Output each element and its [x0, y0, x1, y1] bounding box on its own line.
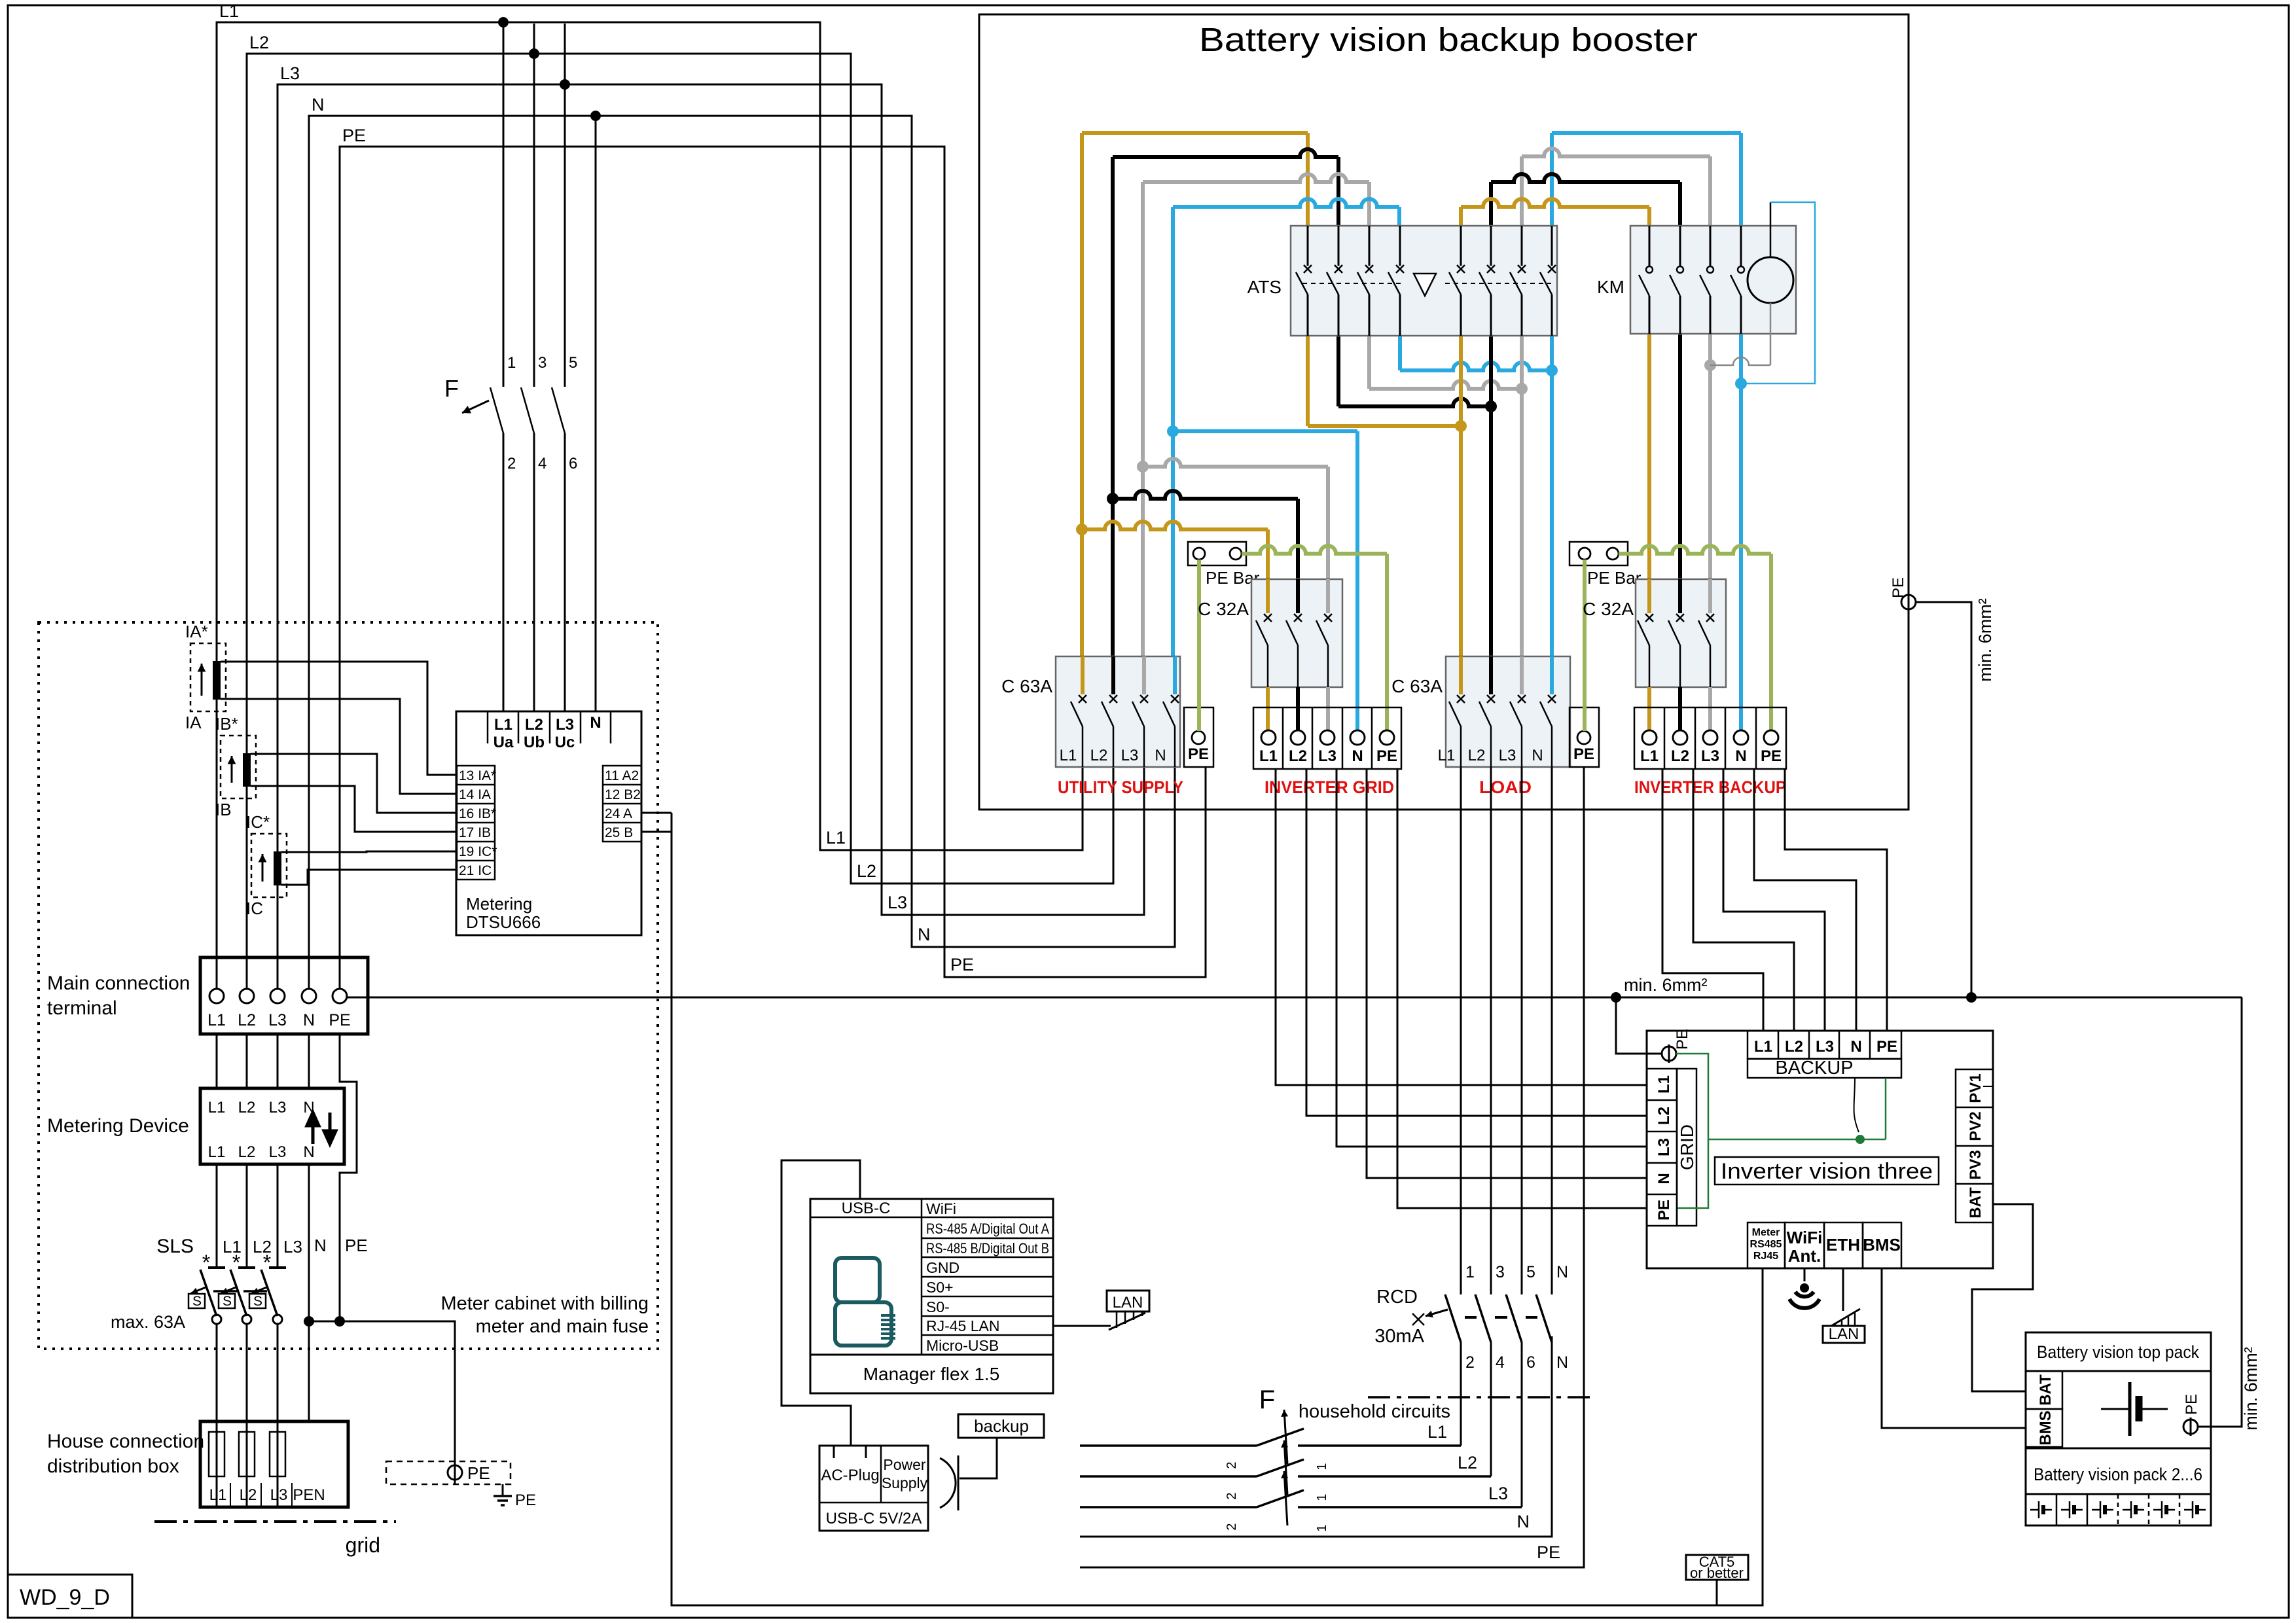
- svg-text:household circuits: household circuits: [1299, 1401, 1450, 1422]
- svg-text:PE: PE: [950, 955, 974, 974]
- svg-text:L1: L1: [208, 1143, 226, 1161]
- svg-text:L1: L1: [494, 716, 512, 734]
- svg-text:L3: L3: [1499, 747, 1516, 764]
- fuse house L1: [216, 1421, 218, 1507]
- wire gold ATS to KM: [1459, 207, 1463, 226]
- S release box SLS L3: [249, 1294, 266, 1308]
- wire inverter backup feed: [1662, 769, 1763, 1031]
- svg-text:3: 3: [538, 354, 547, 372]
- svg-text:21 IC: 21 IC: [459, 863, 492, 878]
- svg-text:L1: L1: [1060, 747, 1077, 764]
- svg-text:L3: L3: [269, 1099, 287, 1116]
- svg-text:PE: PE: [329, 1011, 350, 1029]
- svg-text:L1: L1: [1655, 1075, 1673, 1094]
- manager device icon: [835, 1258, 880, 1302]
- wire PE bypass around metering device: [340, 1034, 357, 1321]
- inverter GRID terminal cells: [1647, 1069, 1677, 1226]
- node N meter tap: [590, 111, 601, 121]
- wire inverter grid feed: [1276, 769, 1647, 1085]
- svg-text:L3: L3: [1121, 747, 1139, 764]
- svg-text:*: *: [263, 1251, 271, 1274]
- node gold tap to inverter grid: [1076, 524, 1088, 535]
- svg-text:Power: Power: [883, 1456, 926, 1473]
- svg-text:PE: PE: [2183, 1394, 2200, 1415]
- svg-text:Manager flex 1.5: Manager flex 1.5: [863, 1364, 1000, 1384]
- svg-text:N: N: [1735, 747, 1746, 765]
- svg-text:PE: PE: [342, 126, 366, 145]
- svg-text:1: 1: [1315, 1463, 1329, 1470]
- KM pole: [1679, 226, 1681, 266]
- svg-text:Supply: Supply: [882, 1474, 928, 1491]
- svg-text:L2: L2: [857, 861, 876, 881]
- battery pack cell 3: [2117, 1494, 2119, 1525]
- metering device box: [200, 1088, 344, 1164]
- svg-text:DTSU666: DTSU666: [466, 912, 541, 932]
- ATS interlock triangle: [1414, 274, 1436, 296]
- node gray ATS output: [1516, 383, 1528, 395]
- wire L3 terminal to metering device: [277, 1034, 279, 1088]
- current transformer IA: [190, 643, 226, 711]
- svg-text:N: N: [1655, 1173, 1673, 1184]
- svg-text:L2: L2: [1458, 1453, 1477, 1472]
- switch SLS L2: [246, 1164, 248, 1268]
- svg-text:Battery vision pack 2...6: Battery vision pack 2...6: [2034, 1465, 2202, 1484]
- svg-text:IA*: IA*: [185, 622, 208, 641]
- svg-text:L1: L1: [1259, 747, 1278, 765]
- inverter BACKUP terminal strip: [1748, 1031, 1901, 1059]
- svg-text:UTILITY SUPPLY: UTILITY SUPPLY: [1058, 777, 1183, 797]
- svg-text:1: 1: [1315, 1524, 1329, 1531]
- svg-text:C 32A: C 32A: [1198, 599, 1249, 619]
- PE symbol booster right: [1901, 595, 1916, 609]
- wire load output to RCD: [1551, 767, 1553, 1294]
- svg-text:PV3: PV3: [1967, 1150, 1984, 1179]
- ATS pole: [1460, 226, 1462, 266]
- svg-text:PV1: PV1: [1967, 1073, 1984, 1103]
- wire backup to power supply: [960, 1438, 997, 1478]
- breaker C32A inverter grid: [1251, 579, 1342, 687]
- ATS pole: [1490, 226, 1492, 266]
- svg-text:L2: L2: [1090, 747, 1108, 764]
- power supply AC-Plug box: [819, 1446, 928, 1531]
- controller Manager flex 1.5: [810, 1199, 1053, 1393]
- svg-text:L2: L2: [525, 716, 543, 734]
- inverter PE symbol: [1662, 1046, 1676, 1061]
- CAT5 or better box: [1686, 1555, 1748, 1580]
- wire inverter grid feed: [1306, 769, 1647, 1116]
- svg-text:LAN: LAN: [1113, 1294, 1143, 1311]
- wire colored stubs C32A to grid terminals: [1266, 687, 1270, 731]
- svg-text:N: N: [1850, 1038, 1861, 1056]
- svg-text:L3: L3: [1655, 1138, 1673, 1156]
- node L3 fuse tap: [560, 79, 570, 90]
- svg-text:AC-Plug: AC-Plug: [821, 1467, 879, 1484]
- inverter bottom port cells: [1748, 1222, 1785, 1268]
- wire PE line to inverter PE: [1616, 997, 1662, 1054]
- svg-text:Meter: Meter: [1752, 1227, 1780, 1238]
- wire olive PE bar to utility PE: [1197, 560, 1201, 731]
- current transformer IB: [221, 736, 256, 798]
- svg-text:2: 2: [1465, 1353, 1475, 1372]
- KM pole: [1710, 226, 1712, 266]
- svg-text:N: N: [303, 1143, 314, 1161]
- wire manager USB-C to power supply: [781, 1160, 860, 1446]
- wire PE main equipotential line min.6mm2: [347, 997, 2242, 999]
- wire inverter backup feed: [1723, 769, 1825, 1031]
- wire household N: [1080, 1336, 1552, 1537]
- node N PEN bond: [304, 1316, 314, 1327]
- PE bar right: [1570, 542, 1628, 565]
- svg-text:BMS: BMS: [2037, 1410, 2054, 1445]
- S release box SLS L2: [219, 1294, 235, 1308]
- svg-text:N: N: [590, 714, 601, 732]
- svg-text:N: N: [1517, 1512, 1530, 1531]
- USB-C connector symbol: [940, 1458, 956, 1508]
- svg-text:2: 2: [507, 455, 516, 473]
- wire olive PE bar to load PE: [1583, 560, 1587, 731]
- RCD test cross and trip arrow: [1426, 1310, 1448, 1316]
- svg-text:meter and main fuse: meter and main fuse: [476, 1316, 649, 1337]
- PE bar left: [1188, 542, 1246, 565]
- svg-text:L1: L1: [1438, 747, 1456, 764]
- svg-text:C 32A: C 32A: [1583, 599, 1634, 619]
- KM pole: [1649, 226, 1651, 266]
- svg-text:1: 1: [1465, 1263, 1475, 1281]
- ATS pole: [1369, 226, 1371, 266]
- svg-text:L3: L3: [888, 893, 907, 912]
- terminal block inverter backup: [1634, 707, 1786, 769]
- svg-text:S: S: [253, 1294, 262, 1309]
- wire PEN earthing link: [309, 1321, 455, 1465]
- svg-text:RS485: RS485: [1750, 1239, 1782, 1250]
- switch household L1: [1080, 1444, 1257, 1447]
- wire CT IA secondary S2: [221, 699, 457, 794]
- house connection distribution box: [200, 1421, 348, 1507]
- wire L1 gold utility riser: [1080, 133, 1084, 656]
- wire load PE to household PE: [1080, 767, 1584, 1567]
- wire L2 black utility riser: [1111, 157, 1115, 656]
- svg-text:L2: L2: [238, 1099, 256, 1116]
- svg-text:PE: PE: [1573, 745, 1594, 763]
- svg-text:2: 2: [1225, 1461, 1239, 1469]
- svg-text:N: N: [918, 925, 931, 944]
- svg-text:IC*: IC*: [246, 812, 270, 832]
- node blue KM coil feed: [1735, 378, 1747, 389]
- wire L2 black top run to ATS: [1113, 149, 1338, 157]
- svg-text:L1: L1: [1640, 747, 1659, 765]
- label Inverter vision three: [1715, 1157, 1939, 1185]
- wire gold KM output to backup C32A: [1647, 334, 1651, 579]
- switch SLS L1: [216, 1164, 218, 1268]
- wifi antenna symbol: [1804, 1268, 1806, 1281]
- ATS pole: [1338, 226, 1340, 266]
- breaker C32A inverter backup: [1636, 579, 1726, 687]
- svg-text:6: 6: [569, 455, 577, 473]
- wire N to metering: [595, 117, 597, 711]
- wire L3 gray top run to ATS: [1143, 174, 1369, 182]
- svg-text:L2: L2: [1785, 1038, 1803, 1056]
- svg-text:SLS: SLS: [156, 1236, 194, 1257]
- svg-text:PE: PE: [1674, 1029, 1691, 1050]
- svg-text:RJ45: RJ45: [1753, 1251, 1778, 1262]
- wire L1 terminal to metering device: [216, 1034, 218, 1088]
- svg-text:Meter cabinet with billing: Meter cabinet with billing: [440, 1293, 649, 1314]
- svg-text:N: N: [312, 95, 325, 115]
- svg-text:2: 2: [1225, 1523, 1239, 1530]
- svg-text:L1: L1: [208, 1099, 226, 1116]
- svg-text:L2: L2: [238, 1011, 256, 1029]
- svg-text:L3: L3: [1701, 747, 1719, 765]
- wire blue ATS to KM: [1550, 133, 1554, 226]
- wire black ATS output to LOAD breaker: [1489, 336, 1493, 656]
- svg-text:*: *: [232, 1251, 240, 1274]
- wire CT IA secondary S1: [221, 662, 457, 775]
- svg-text:max. 63A: max. 63A: [111, 1312, 185, 1332]
- wire BMS inverter to battery: [1882, 1268, 2026, 1428]
- svg-text:USB-C: USB-C: [842, 1200, 891, 1217]
- wire gray branch to grid C32A: [1143, 459, 1328, 467]
- wire gray ATS outputs merge: [1367, 336, 1371, 389]
- node black tap to inverter grid: [1107, 493, 1119, 505]
- battery PE symbol: [2183, 1419, 2198, 1434]
- node L2 fuse tap: [529, 48, 539, 59]
- wire L3 gray utility riser: [1141, 182, 1145, 656]
- current transformer IC: [251, 834, 287, 897]
- wire BAT inverter to battery: [1972, 1204, 2033, 1391]
- svg-text:WD_9_D: WD_9_D: [20, 1585, 110, 1610]
- svg-text:min. 6mm²: min. 6mm²: [2241, 1347, 2261, 1431]
- ATS pole: [1521, 226, 1523, 266]
- terminal PE load: [1570, 707, 1599, 767]
- svg-text:N: N: [303, 1011, 315, 1029]
- wire gold branch to grid C32A: [1082, 522, 1268, 529]
- terminal column DTSU right pins 11-25: [603, 766, 641, 842]
- wire blue KM output to backup N terminal: [1739, 334, 1743, 731]
- battery pack cell 1: [2056, 1494, 2058, 1525]
- svg-text:N: N: [1155, 747, 1166, 764]
- svg-text:Micro-USB: Micro-USB: [926, 1337, 999, 1354]
- wire CT IB secondary S2: [251, 786, 457, 832]
- wire L1 grid bus (house feed to booster utility input): [217, 22, 1083, 989]
- RCD pole 5: [1506, 1294, 1522, 1342]
- wire olive PE bar to backup PE: [1619, 546, 1771, 554]
- wire blue ATS output to LOAD breaker: [1550, 336, 1554, 656]
- S release box SLS L1: [188, 1294, 205, 1308]
- wire green PE bond network: [1676, 1054, 1708, 1208]
- svg-text:terminal: terminal: [47, 997, 117, 1019]
- wire KM coil feed blue: [1770, 202, 1772, 257]
- svg-text:14 IA: 14 IA: [459, 787, 491, 802]
- svg-text:PE: PE: [1537, 1543, 1560, 1562]
- svg-text:House connection: House connection: [47, 1431, 204, 1452]
- wire load output to RCD: [1490, 767, 1492, 1294]
- svg-text:PEN: PEN: [293, 1486, 325, 1504]
- battery BMS terminal: [2026, 1409, 2062, 1447]
- svg-text:N: N: [1556, 1263, 1568, 1281]
- ATS pole: [1399, 226, 1401, 266]
- fuse house L2: [246, 1421, 248, 1507]
- wire gray ATS output to LOAD breaker: [1520, 336, 1524, 656]
- svg-text:min. 6mm²: min. 6mm²: [1975, 598, 1995, 682]
- svg-text:L3: L3: [270, 1486, 288, 1504]
- svg-text:ATS: ATS: [1247, 277, 1282, 297]
- ATS pole: [1307, 226, 1309, 266]
- svg-text:N: N: [314, 1236, 327, 1255]
- svg-text:3: 3: [1496, 1263, 1505, 1281]
- title block WD_9_D: [8, 1575, 132, 1618]
- svg-text:PE: PE: [1890, 577, 1907, 598]
- svg-text:4: 4: [538, 455, 547, 473]
- contactor KM: [1630, 226, 1796, 334]
- fuse-switch F 3-pole: [503, 24, 505, 387]
- svg-text:L2: L2: [1468, 747, 1486, 764]
- svg-text:L1: L1: [826, 828, 846, 847]
- wire L2 grid bus (house feed to booster utility input): [247, 54, 1113, 989]
- wire inverter grid feed: [1397, 769, 1647, 1208]
- svg-text:L1: L1: [1754, 1038, 1772, 1056]
- svg-text:PV2: PV2: [1967, 1111, 1984, 1141]
- svg-text:BACKUP: BACKUP: [1775, 1058, 1853, 1079]
- battery cell symbol: [2101, 1408, 2130, 1410]
- wire inverter backup feed: [1785, 769, 1887, 1031]
- RCD pole N: [1536, 1294, 1552, 1342]
- svg-text:Inverter vision three: Inverter vision three: [1721, 1159, 1933, 1184]
- svg-text:1: 1: [507, 354, 516, 372]
- svg-text:Battery vision backup booster: Battery vision backup booster: [1199, 21, 1698, 58]
- wire N blue utility riser: [1171, 207, 1175, 656]
- wire N blue top run to ATS: [1173, 199, 1399, 207]
- svg-text:L3: L3: [556, 716, 574, 734]
- wire N grid bus (house feed to booster utility input): [309, 116, 1175, 989]
- wire black branch to grid C32A: [1113, 491, 1298, 499]
- svg-text:Uc: Uc: [555, 734, 575, 751]
- inverter PV and BAT terminals: [1956, 1069, 1993, 1222]
- svg-text:1: 1: [1315, 1493, 1329, 1501]
- svg-text:L2: L2: [249, 33, 269, 52]
- svg-text:L2: L2: [240, 1486, 257, 1504]
- svg-text:IC: IC: [246, 899, 263, 918]
- svg-text:IA: IA: [185, 713, 202, 732]
- svg-text:S0+: S0+: [926, 1279, 954, 1296]
- svg-text:KM: KM: [1597, 277, 1624, 297]
- backup signal box: [958, 1414, 1044, 1438]
- svg-text:PE: PE: [467, 1463, 490, 1483]
- node PE line inverter branch: [1611, 992, 1621, 1003]
- svg-text:11 A2: 11 A2: [605, 768, 639, 783]
- svg-text:PE: PE: [1876, 1038, 1897, 1056]
- switch SLS L3: [277, 1164, 279, 1268]
- node green PE bond: [1856, 1135, 1865, 1144]
- svg-text:2: 2: [1225, 1492, 1239, 1499]
- svg-text:19 IC*: 19 IC*: [459, 844, 497, 859]
- wire inverter backup feed: [1693, 769, 1794, 1031]
- transfer switch ATS: [1291, 226, 1557, 336]
- svg-text:INVERTER BACKUP: INVERTER BACKUP: [1634, 777, 1786, 797]
- svg-text:F: F: [444, 375, 459, 402]
- svg-text:24 A: 24 A: [605, 806, 632, 821]
- battery vision top pack box: [2026, 1332, 2211, 1448]
- wire N terminal to metering device: [308, 1034, 310, 1088]
- KM coil: [1748, 257, 1793, 303]
- svg-text:Main connection: Main connection: [47, 972, 190, 994]
- svg-text:L3: L3: [1488, 1484, 1508, 1503]
- wire N through meter cabinet: [308, 1164, 310, 1421]
- KM pole: [1740, 226, 1742, 266]
- battery pack cell 4: [2148, 1494, 2150, 1525]
- switch backup N-PE bond relay: [1854, 1078, 1859, 1132]
- svg-text:L1: L1: [207, 1011, 226, 1029]
- wire inverter grid feed: [1367, 769, 1647, 1178]
- svg-text:BMS: BMS: [1863, 1235, 1901, 1255]
- svg-text:16 IB*: 16 IB*: [459, 806, 496, 821]
- terminal PE utility: [1184, 707, 1213, 767]
- wire RS485 meter link: [641, 812, 672, 814]
- svg-text:RCD: RCD: [1376, 1287, 1418, 1308]
- svg-text:WiFi: WiFi: [1787, 1228, 1823, 1247]
- wire manager RJ45 to LAN: [1053, 1325, 1111, 1327]
- wire PE booster to equipotential line: [1916, 602, 1971, 997]
- ground symbol PE: [502, 1484, 504, 1496]
- svg-text:BAT: BAT: [1967, 1187, 1984, 1219]
- wire L3 grid bus (house feed to booster utility input): [278, 84, 1144, 989]
- battery pack cell 5: [2179, 1494, 2181, 1525]
- wire blue ATS outputs merge: [1398, 336, 1402, 370]
- wire gray ATS to KM: [1520, 156, 1524, 226]
- svg-text:RJ-45 LAN: RJ-45 LAN: [926, 1317, 999, 1334]
- svg-text:5: 5: [569, 354, 577, 372]
- battery BAT terminal: [2026, 1371, 2062, 1409]
- svg-text:grid: grid: [346, 1533, 380, 1557]
- svg-text:25 B: 25 B: [605, 825, 633, 840]
- node gray KM coil return: [1704, 359, 1716, 371]
- fuse house L3: [277, 1421, 279, 1507]
- svg-text:RS-485 B/Digital Out B: RS-485 B/Digital Out B: [926, 1240, 1049, 1257]
- wire ETH to LAN: [1842, 1268, 1844, 1311]
- svg-text:INVERTER GRID: INVERTER GRID: [1265, 777, 1394, 797]
- terminal block Main connection terminal: [200, 957, 368, 1034]
- svg-text:USB-C 5V/2A: USB-C 5V/2A: [826, 1510, 922, 1527]
- svg-text:RS-485 A/Digital Out A: RS-485 A/Digital Out A: [926, 1221, 1049, 1237]
- wire gold ATS outputs merge: [1306, 336, 1310, 426]
- wire olive PE bar to grid PE: [1242, 546, 1387, 554]
- svg-text:N: N: [1532, 747, 1543, 764]
- svg-text:L2: L2: [1655, 1107, 1673, 1125]
- svg-text:12 B2: 12 B2: [605, 787, 641, 802]
- svg-text:PE Bar: PE Bar: [1587, 568, 1641, 588]
- boundary dash-dot household circuits: [1368, 1396, 1594, 1399]
- svg-text:L3: L3: [268, 1011, 287, 1029]
- svg-text:WiFi: WiFi: [926, 1200, 956, 1217]
- wire CT IC secondary S1: [281, 851, 457, 852]
- svg-text:Metering Device: Metering Device: [47, 1115, 189, 1137]
- svg-text:L3: L3: [280, 63, 300, 83]
- wire CT IC secondary S2: [281, 870, 457, 885]
- grid boundary dash-dot line: [154, 1520, 396, 1523]
- battery vision pack 2..6 box: [2026, 1448, 2211, 1525]
- meter cabinet dotted boundary: [39, 622, 658, 1349]
- node gray tap to inverter grid: [1137, 461, 1149, 473]
- svg-text:L3: L3: [1816, 1038, 1834, 1056]
- breaker C63A utility supply: [1056, 656, 1180, 767]
- svg-text:17 IB: 17 IB: [459, 825, 491, 840]
- svg-text:distribution box: distribution box: [47, 1455, 179, 1477]
- wire black ATS to KM: [1489, 182, 1493, 226]
- wire blue branch to grid N terminal: [1173, 429, 1357, 433]
- svg-text:6: 6: [1526, 1353, 1535, 1372]
- breaker C63A load: [1446, 656, 1570, 767]
- svg-text:GND: GND: [926, 1259, 960, 1276]
- svg-text:PE: PE: [1655, 1200, 1673, 1221]
